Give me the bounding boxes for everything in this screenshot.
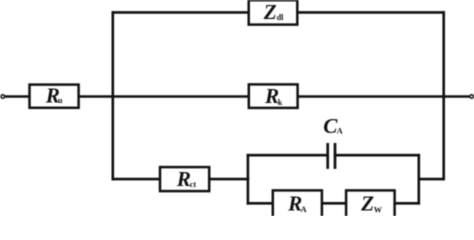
svg-text:u: u bbox=[58, 96, 63, 105]
svg-text:W: W bbox=[374, 206, 383, 215]
svg-text:A: A bbox=[337, 127, 343, 136]
svg-text:R: R bbox=[176, 167, 191, 191]
svg-text:ct: ct bbox=[190, 180, 197, 189]
svg-text:k: k bbox=[278, 98, 283, 107]
svg-text:Z: Z bbox=[360, 191, 374, 215]
svg-text:A: A bbox=[301, 205, 307, 214]
svg-text:Z: Z bbox=[263, 0, 277, 24]
svg-text:dl: dl bbox=[277, 13, 285, 22]
